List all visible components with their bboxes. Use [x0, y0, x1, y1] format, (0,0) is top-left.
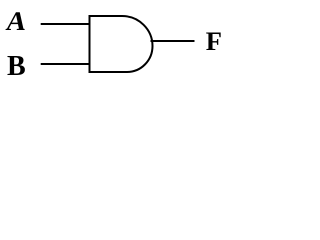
wire input B	[41, 63, 90, 65]
and-gate U1	[90, 16, 153, 72]
svg-text:F: F	[206, 26, 222, 56]
svg-text:A: A	[4, 6, 29, 36]
wire input A	[41, 23, 90, 25]
wire output F	[151, 40, 195, 42]
svg-text:B: B	[7, 51, 26, 82]
